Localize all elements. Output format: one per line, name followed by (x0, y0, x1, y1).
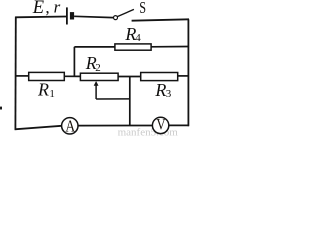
svg-text:3: 3 (166, 88, 172, 100)
battery E,r short thick plate (70, 12, 74, 19)
battery E,r long plate (66, 7, 68, 24)
wire junction vertical R2/R3 node down to bottom row (129, 77, 131, 126)
wire top-left from corner to battery (15, 16, 66, 19)
wire right vertical side (187, 19, 189, 126)
wire R4 branch vertical from main row (73, 47, 75, 77)
svg-text:,: , (45, 0, 49, 17)
svg-text:V: V (156, 116, 166, 133)
svg-text:r: r (54, 0, 61, 17)
label R4 (124, 24, 141, 44)
label E, r (32, 0, 61, 18)
svg-text:1: 1 (49, 88, 55, 100)
voltmeter V circle (152, 117, 168, 133)
resistor R3 (141, 73, 178, 81)
resistor R1 (29, 72, 65, 80)
svg-text:4: 4 (135, 32, 141, 44)
svg-text:R: R (37, 79, 49, 99)
ammeter A letter (65, 117, 76, 136)
label R2 (85, 53, 101, 74)
label R3 (154, 80, 171, 100)
ammeter A circle (62, 118, 78, 134)
resistor R4 (115, 44, 151, 50)
voltmeter V letter (156, 116, 166, 133)
wire bottom voltmeter to right corner (169, 124, 189, 126)
wire wiper to junction vertical (96, 98, 130, 100)
svg-text:A: A (65, 117, 76, 136)
switch S pivot circle (114, 16, 118, 20)
resistor R2 (potentiometer body) (80, 73, 118, 80)
svg-text:R: R (154, 80, 166, 100)
wire R2 to R3 (118, 76, 141, 78)
svg-text:S: S (139, 0, 146, 17)
label R1 (37, 79, 55, 100)
svg-text:E: E (32, 0, 44, 18)
R2 wiper arrow (94, 81, 99, 99)
wire main row left edge to R1 (16, 75, 29, 77)
wire bottom-left sloped to ammeter (15, 126, 62, 130)
wire left vertical side (14, 17, 16, 130)
wire bottom ammeter to voltmeter (78, 125, 152, 127)
wire R4 row left (74, 46, 115, 48)
watermark manfen5.com (118, 127, 179, 139)
wire R3 to right edge (178, 75, 189, 77)
svg-text:2: 2 (95, 62, 101, 74)
wire R4 row right (151, 46, 188, 48)
wire R1 to R2 (64, 75, 80, 77)
label S (139, 0, 146, 17)
wire battery to switch (74, 16, 113, 17)
switch S blade (117, 9, 134, 16)
stray glyph fragment at left edge (0, 107, 2, 110)
wire switch to top-right corner (132, 19, 189, 20)
